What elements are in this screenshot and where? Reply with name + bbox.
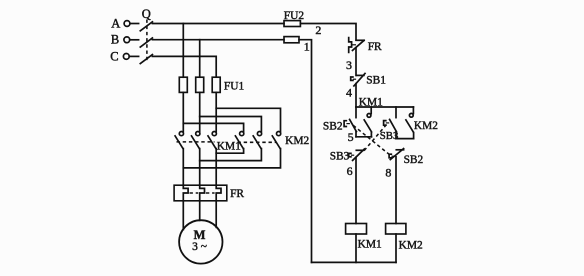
svg-text:Q: Q [142, 7, 151, 21]
svg-text:B: B [111, 32, 119, 46]
svg-text:3 ~: 3 ~ [192, 241, 207, 253]
svg-text:KM2: KM2 [414, 120, 438, 132]
svg-text:SB3: SB3 [330, 151, 350, 163]
svg-text:SB2: SB2 [404, 154, 424, 166]
svg-text:FR: FR [230, 188, 244, 200]
svg-text:FU1: FU1 [224, 81, 245, 93]
svg-text:6: 6 [347, 164, 353, 178]
svg-text:KM2: KM2 [285, 135, 309, 147]
svg-text:KM1: KM1 [358, 239, 382, 251]
svg-text:2: 2 [315, 23, 321, 37]
svg-text:3: 3 [346, 58, 352, 72]
svg-text:1: 1 [304, 40, 310, 54]
svg-text:C: C [110, 50, 118, 64]
svg-text:KM2: KM2 [399, 240, 423, 252]
svg-text:5: 5 [348, 130, 354, 144]
svg-text:FU2: FU2 [284, 10, 305, 22]
svg-text:FR: FR [368, 41, 382, 53]
svg-text:4: 4 [346, 86, 352, 100]
svg-text:SB2: SB2 [323, 121, 343, 133]
svg-text:A: A [111, 16, 120, 30]
svg-text:KM1: KM1 [359, 96, 383, 108]
svg-text:SB3: SB3 [380, 130, 399, 142]
svg-text:SB1: SB1 [366, 75, 386, 87]
svg-text:KM1: KM1 [217, 141, 241, 153]
svg-text:8: 8 [385, 165, 391, 179]
